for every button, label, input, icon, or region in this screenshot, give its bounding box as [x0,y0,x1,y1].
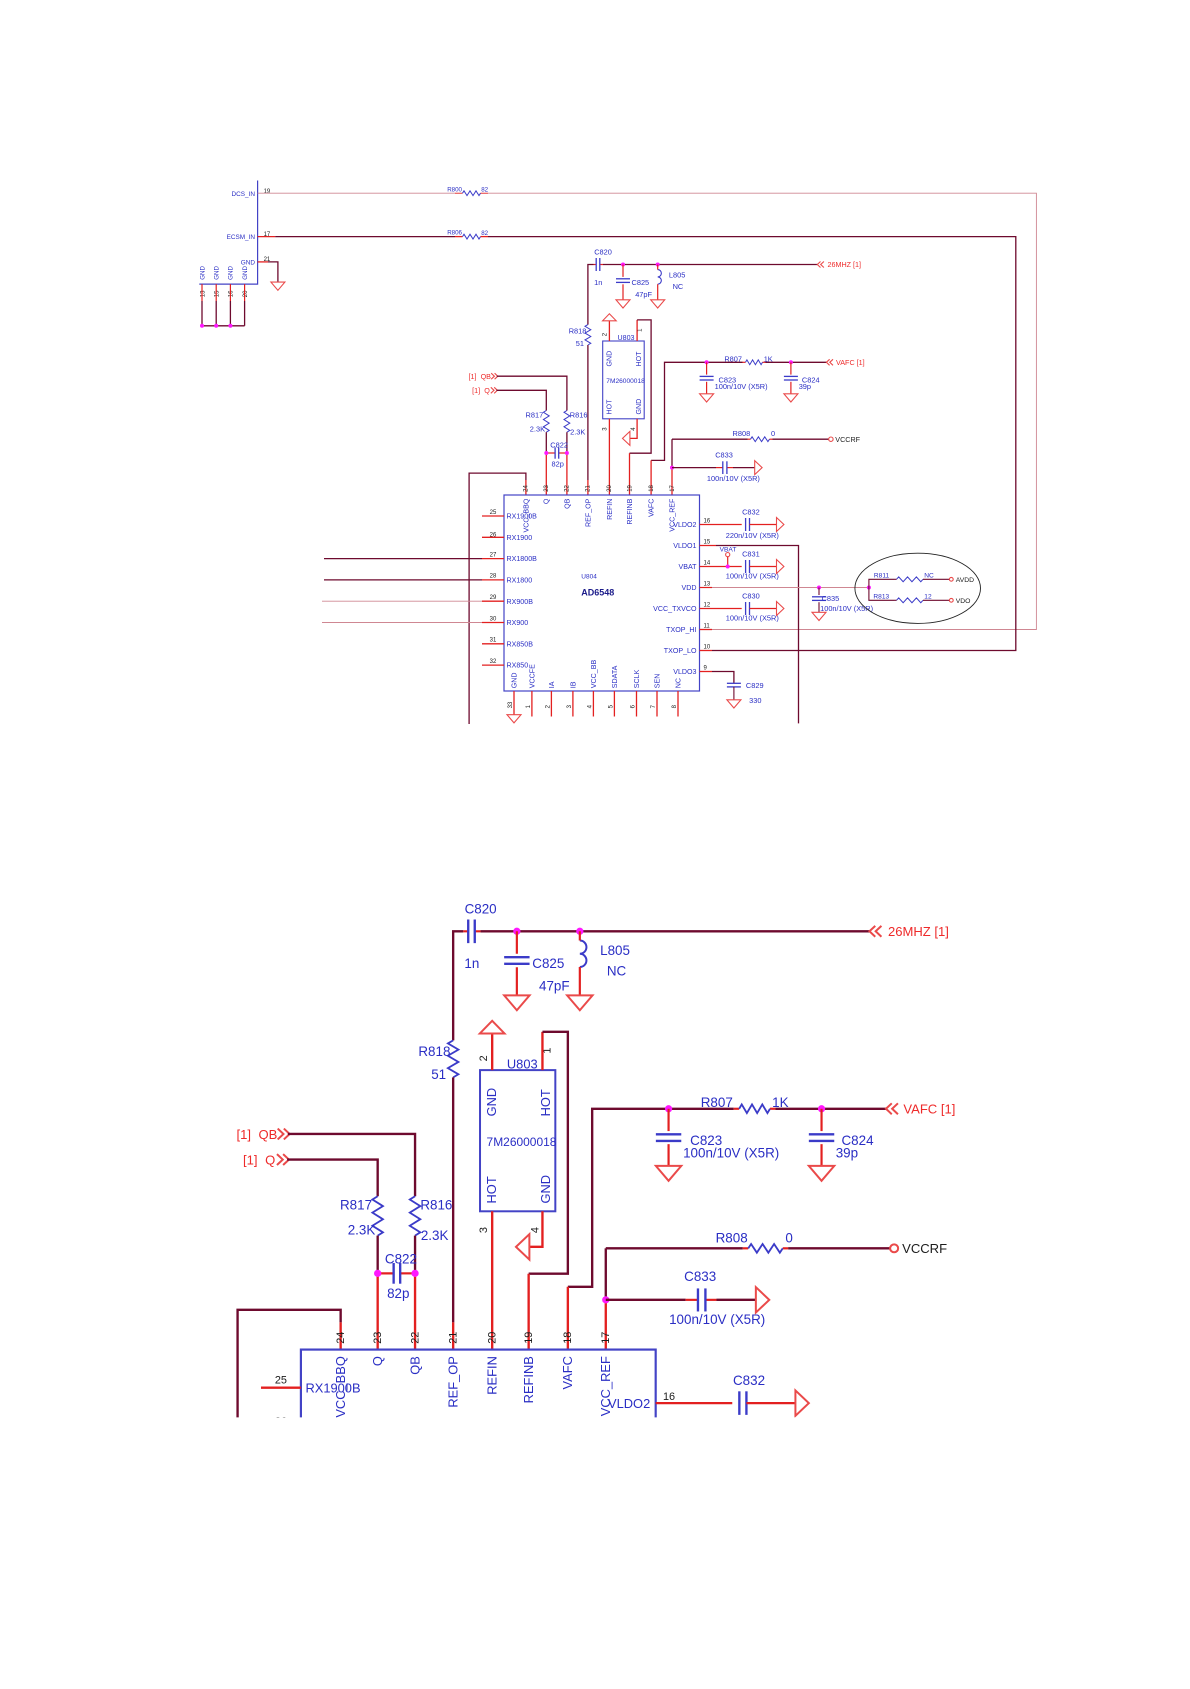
bottom zoomed schematic view [0,779,1190,1689]
top full schematic view [199,181,1036,725]
